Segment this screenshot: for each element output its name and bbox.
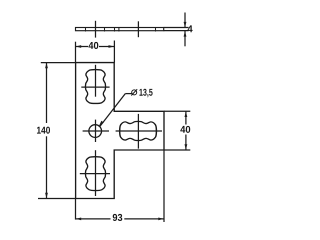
- center hole vertical centerline: [95, 120, 97, 142]
- dimension 40 right top extension line: [164, 110, 190, 112]
- top view centerline left: [95, 21, 97, 38]
- dimension 93 right arrow: [158, 218, 164, 221]
- dimension 140 arrow down: [45, 193, 48, 199]
- dimension 4 lower shaft: [184, 31, 186, 46]
- dimension 40 right text: [180, 126, 190, 133]
- dimension 40 top right arrow: [109, 45, 115, 48]
- top view arm slot left edge tick: [118, 27, 120, 32]
- dimension 93 text: [113, 214, 123, 221]
- leader line diagonal: [100, 94, 126, 127]
- top slot: [85, 70, 105, 104]
- dimension 4 arrow up: [184, 31, 187, 36]
- top view centerline right: [137, 21, 139, 37]
- extension line thickness bottom: [164, 30, 189, 32]
- dimension 93 left arrow: [76, 218, 82, 221]
- dimension 40 top right shaft: [99, 46, 114, 48]
- dimension 40 right bottom extension line: [164, 149, 190, 151]
- dimension 4 upper shaft: [184, 13, 186, 28]
- dimension 140 lower shaft: [46, 136, 48, 198]
- top view strip outline: [76, 28, 164, 31]
- top view arm slot right edge tick: [155, 27, 157, 32]
- leader line shoulder: [125, 93, 131, 95]
- dimension 40 top text: [88, 42, 98, 49]
- dimension 40 top left arrow: [76, 45, 82, 48]
- dimension 140 arrow up: [45, 63, 48, 69]
- bottom slot vertical centerline: [95, 150, 97, 196]
- dimension 40 right upper shaft: [185, 111, 187, 124]
- plate outline front view: [76, 63, 164, 199]
- dimension 40 top left shaft: [76, 46, 89, 48]
- top edge extension to left for 140: [41, 62, 76, 64]
- extension line thickness top: [164, 27, 189, 29]
- top slot horizontal centerline: [81, 86, 109, 88]
- leader arrowhead: [99, 121, 104, 127]
- dimension 40 right arrow up: [185, 112, 188, 118]
- dimension 4 arrow down: [184, 22, 187, 28]
- dimension 40 right arrow down: [185, 144, 188, 150]
- bottom slot horizontal centerline: [80, 173, 110, 175]
- dimension 4 text: [187, 25, 192, 32]
- dimension 93 right shaft: [124, 218, 164, 220]
- center hole horizontal centerline: [83, 130, 109, 132]
- diameter symbol slash: [131, 89, 137, 95]
- diameter value text: [139, 89, 152, 98]
- dimension 40 right lower shaft: [185, 135, 187, 151]
- arm slot horizontal: [120, 121, 157, 140]
- top view slot left edge tick: [85, 27, 87, 32]
- dimension 93 right extension line: [163, 150, 165, 222]
- dimension 40 top right extension line: [113, 41, 115, 63]
- dimension 140 text: [37, 127, 50, 134]
- top view slot right edge tick: [104, 27, 106, 32]
- diameter symbol circle: [132, 90, 137, 95]
- center hole circle: [89, 125, 102, 138]
- dimension 140 upper shaft: [46, 63, 48, 123]
- dimension 93 left extension line: [75, 199, 77, 220]
- bottom edge extension to left for 140: [38, 198, 76, 200]
- arm slot horizontal centerline: [116, 130, 162, 132]
- bottom slot: [85, 157, 105, 191]
- top view step edge tick: [114, 27, 116, 32]
- arm slot vertical centerline: [137, 114, 139, 149]
- dimension 93 left shaft: [76, 218, 111, 220]
- top slot vertical centerline: [95, 65, 97, 97]
- dimension 40 top left extension line: [75, 42, 77, 63]
